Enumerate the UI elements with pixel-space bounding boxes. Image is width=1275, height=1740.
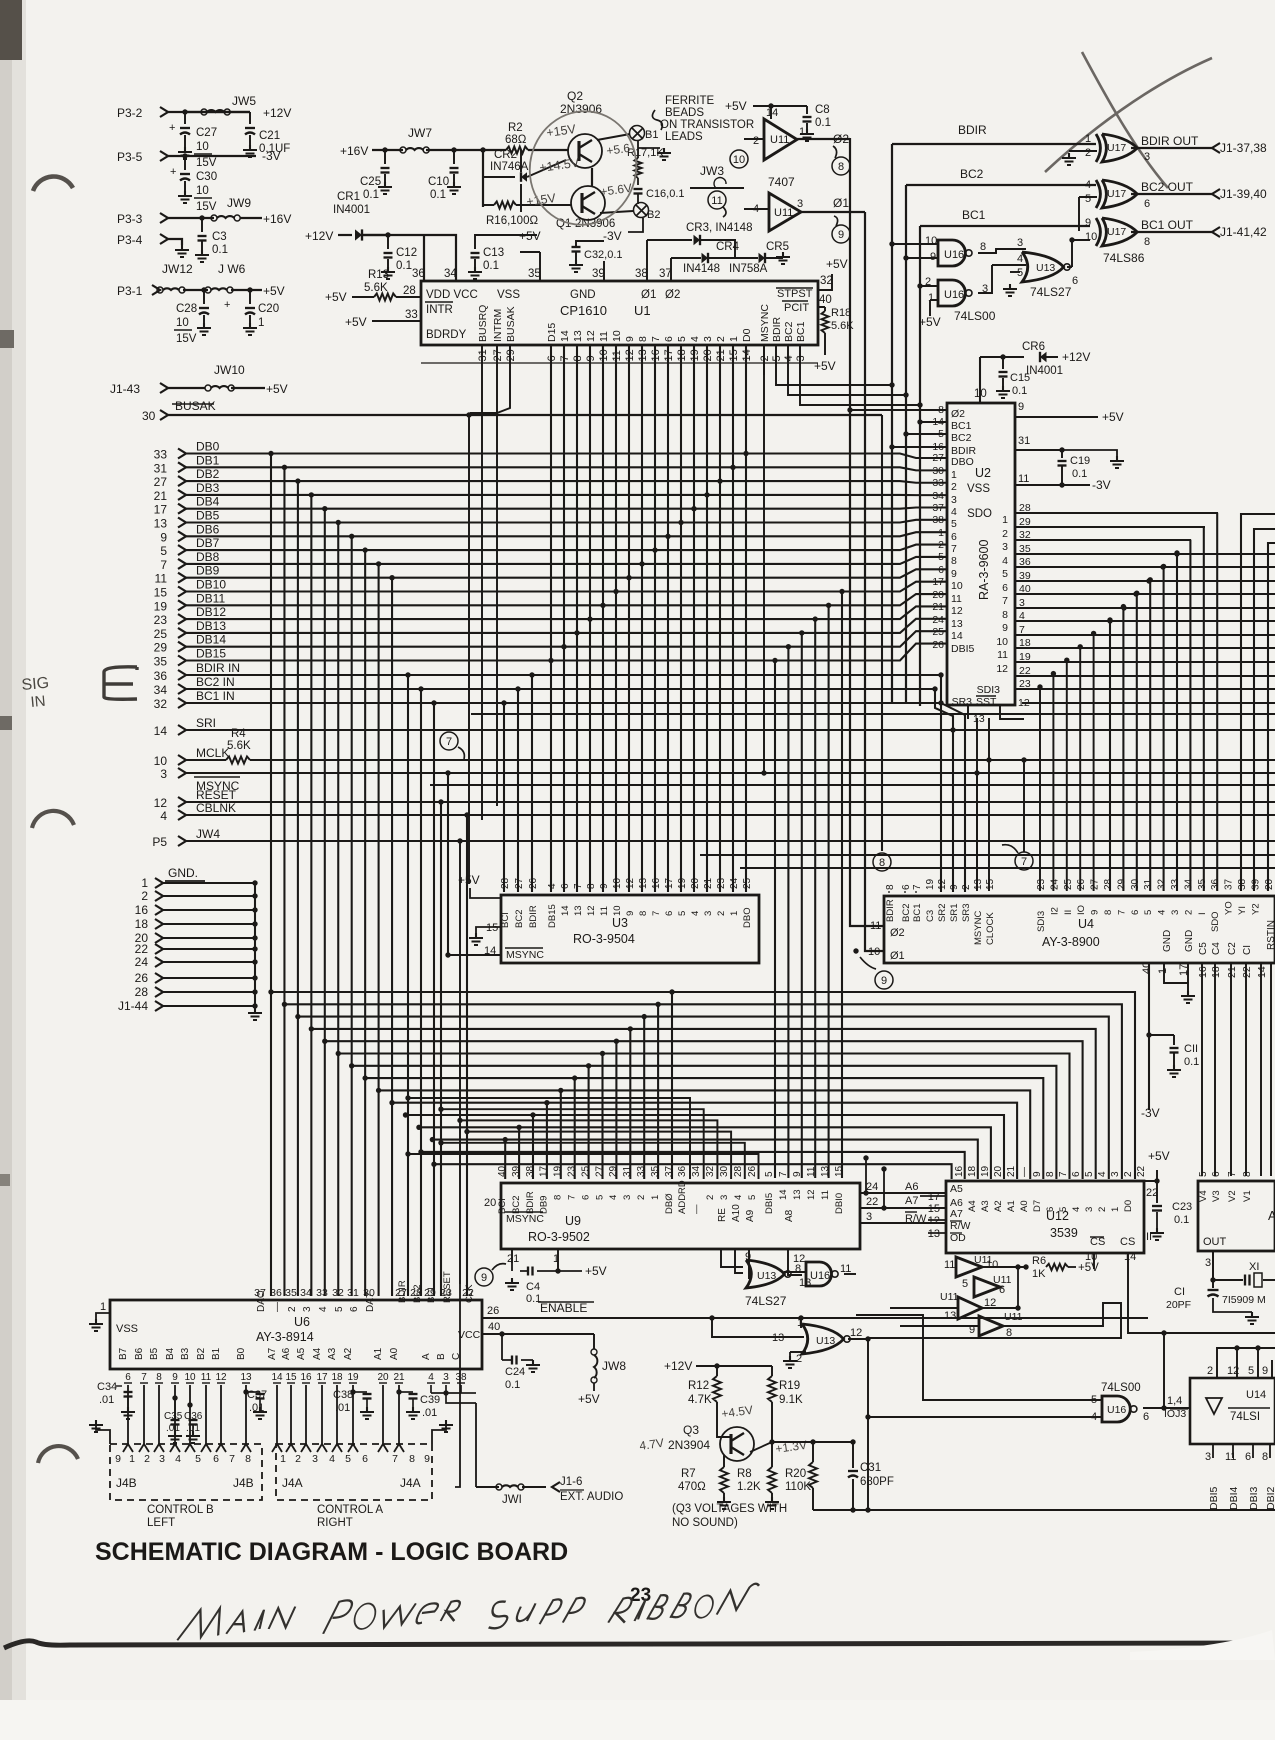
junction staircase2 col5 [574, 630, 579, 635]
svg-text:35: 35 [154, 655, 168, 669]
svg-text:35: 35 [285, 1287, 297, 1299]
wire U6 ABC pins stub [431, 1385, 461, 1393]
wire U9-U12 A6 A7 RW links [865, 1158, 867, 1193]
wire U2 row 12 [1015, 675, 1275, 677]
svg-text:10: 10 [176, 317, 189, 329]
capacitor C15 [1002, 357, 1004, 369]
svg-text:SIG: SIG [21, 675, 50, 694]
svg-text:3: 3 [1144, 151, 1150, 163]
svg-text:10: 10 [611, 330, 623, 342]
svg-text:XI: XI [1249, 1261, 1259, 1273]
svg-text:6: 6 [1071, 1171, 1082, 1177]
svg-text:6: 6 [560, 883, 571, 889]
svg-text:B6: B6 [134, 1347, 145, 1360]
svg-text:6: 6 [580, 1195, 591, 1200]
wire U4 right column 1 [1254, 529, 1275, 891]
svg-text:JW7: JW7 [408, 126, 432, 140]
wires U6 to J4B [127, 1385, 129, 1444]
svg-text:IN746A: IN746A [490, 161, 529, 173]
wire RESET drop [438, 799, 443, 804]
pin J4A 2 [286, 1444, 296, 1452]
svg-text:U3: U3 [612, 916, 628, 930]
svg-text:13: 13 [573, 905, 584, 916]
wire mid row 11 [419, 1127, 991, 1179]
svg-text:A2: A2 [993, 1200, 1004, 1212]
wire U4 col riser 3 [1079, 647, 1081, 891]
circled 9 top [832, 225, 850, 243]
nor gate U13b [746, 1260, 784, 1288]
wire Q2 emitter [597, 134, 630, 140]
svg-text:29: 29 [608, 1165, 619, 1177]
svg-text:28: 28 [500, 877, 511, 889]
svg-text:25: 25 [1063, 878, 1074, 890]
junction staircase2 col18 [743, 451, 748, 456]
pin J4B 2 [139, 1444, 149, 1452]
svg-text:BEADS: BEADS [665, 107, 704, 119]
svg-text:5: 5 [677, 911, 688, 916]
svg-text:6: 6 [1045, 1207, 1056, 1212]
svg-text:R6: R6 [1032, 1255, 1046, 1267]
svg-text:12: 12 [928, 1215, 940, 1227]
svg-text:13: 13 [951, 618, 963, 630]
svg-text:R16,100Ω: R16,100Ω [486, 215, 538, 227]
svg-text:23: 23 [154, 613, 168, 627]
svg-text:12: 12 [1018, 697, 1030, 709]
svg-text:C31: C31 [860, 1462, 881, 1474]
pin J4A 3 [301, 1444, 311, 1452]
svg-text:BC1: BC1 [795, 321, 807, 342]
svg-text:U17: U17 [1107, 226, 1126, 238]
wire U12 CS14 run [1128, 1283, 1275, 1333]
svg-text:9: 9 [951, 568, 957, 580]
svg-text:37: 37 [659, 268, 672, 280]
buffer U11e [958, 1297, 982, 1319]
svg-text:9: 9 [424, 1453, 430, 1465]
svg-text:D0: D0 [1123, 1200, 1134, 1212]
svg-text:SST: SST [976, 696, 997, 708]
wire BC2 OUT [1131, 193, 1212, 195]
pin J4B 3 [154, 1444, 164, 1452]
svg-text:6: 6 [999, 1284, 1005, 1296]
svg-text:0.1: 0.1 [526, 1293, 541, 1305]
svg-text:CR1: CR1 [337, 191, 360, 203]
svg-text:0.1: 0.1 [1012, 385, 1027, 397]
svg-text:31: 31 [1018, 435, 1030, 447]
junction staircase2 col10 [639, 561, 644, 566]
svg-text:31: 31 [477, 349, 489, 361]
svg-text:5: 5 [334, 1306, 345, 1312]
svg-text:0.1: 0.1 [1174, 1214, 1189, 1226]
wire U4 column 26 [1149, 580, 1151, 891]
wire U4 right column 2 [1268, 543, 1275, 891]
svg-text:+16V: +16V [263, 212, 291, 226]
wire JW4 drop [457, 838, 462, 843]
svg-text:B1: B1 [211, 1347, 222, 1360]
wire phase-1 output [801, 211, 865, 213]
svg-text:C30: C30 [196, 171, 217, 183]
svg-text:JW3: JW3 [700, 164, 724, 178]
svg-text:2: 2 [796, 1353, 802, 1365]
wire addr row 2 [460, 1120, 717, 1179]
wire U1 column 9 [628, 344, 630, 892]
wire Q3 output [749, 1454, 750, 1456]
svg-text:7: 7 [650, 336, 662, 342]
wire U4 col riser 0 [1039, 687, 1041, 891]
svg-text:4: 4 [1157, 910, 1168, 915]
svg-text:11: 11 [598, 331, 610, 342]
svg-text:U14: U14 [1246, 1389, 1266, 1401]
svg-text:D15: D15 [546, 323, 558, 342]
svg-text:5: 5 [160, 544, 167, 558]
svg-text:6: 6 [1002, 582, 1008, 594]
svg-text:7: 7 [1227, 1171, 1238, 1177]
wire JW4 run [186, 840, 1275, 842]
svg-text:16: 16 [300, 1372, 312, 1383]
svg-text:U11: U11 [774, 207, 793, 219]
svg-text:10: 10 [925, 235, 937, 247]
connector J4B [110, 1444, 262, 1500]
svg-text:2: 2 [951, 481, 957, 493]
svg-text:C23: C23 [1172, 1201, 1192, 1213]
svg-text:28: 28 [403, 285, 416, 297]
svg-text:1: 1 [797, 1317, 803, 1329]
svg-text:A7: A7 [905, 1195, 918, 1207]
svg-text:23: 23 [630, 1585, 651, 1606]
svg-text:9: 9 [115, 1453, 121, 1465]
wire U13a out up to U17c [1067, 266, 1072, 268]
svg-text:R/W: R/W [905, 1213, 927, 1225]
wire mid row 1 [284, 1004, 1121, 1179]
wire SR pins from BDIR/BC2/BC1 IN [940, 675, 942, 892]
svg-text:.01: .01 [99, 1394, 114, 1406]
svg-text:DB1: DB1 [196, 453, 220, 467]
svg-text:40: 40 [1141, 962, 1153, 974]
svg-text:7: 7 [912, 884, 923, 890]
pin J4B 6 [201, 1444, 211, 1452]
wire addr row 0 [408, 1098, 690, 1179]
IC U14 74LS [1190, 1378, 1275, 1444]
svg-text:3: 3 [951, 494, 957, 506]
svg-text:8: 8 [409, 1453, 415, 1465]
svg-text:2: 2 [753, 135, 759, 147]
svg-text:+5V: +5V [585, 1264, 607, 1278]
svg-text:6: 6 [938, 564, 944, 576]
svg-text:AY-3-8900: AY-3-8900 [1042, 935, 1100, 949]
svg-text:74LS00: 74LS00 [954, 309, 996, 323]
pin J4B 7 [216, 1444, 226, 1452]
svg-text:A9: A9 [745, 1209, 756, 1222]
svg-text:14: 14 [559, 330, 571, 342]
svg-text:J4B: J4B [233, 1476, 254, 1490]
svg-text:DB9: DB9 [196, 564, 220, 578]
svg-text:35: 35 [650, 1165, 661, 1177]
svg-text:10: 10 [184, 1372, 196, 1383]
wire U2 row 11 [1015, 661, 1275, 663]
svg-text:20: 20 [690, 877, 701, 889]
svg-text:8: 8 [879, 857, 885, 869]
svg-text:JW5: JW5 [232, 94, 256, 108]
wire U16b out [978, 265, 992, 293]
wire U4 column 31 [1216, 513, 1218, 891]
svg-text:2: 2 [1183, 910, 1194, 915]
IC U3 RO-3-9504 [501, 895, 759, 963]
svg-text:B5: B5 [149, 1347, 160, 1360]
wire DB5 drop to U6 [336, 520, 341, 525]
wire BDIR vertical [891, 144, 893, 704]
svg-text:A7: A7 [267, 1347, 278, 1360]
svg-text:A7: A7 [950, 1208, 963, 1220]
svg-text:19: 19 [925, 878, 936, 890]
svg-text:20: 20 [377, 1372, 389, 1383]
svg-text:6: 6 [1144, 198, 1150, 210]
junction staircase2 col3 [548, 658, 553, 663]
svg-text:MCLK: MCLK [196, 746, 229, 760]
svg-text:0.1: 0.1 [430, 189, 446, 201]
svg-text:Ø2: Ø2 [951, 408, 965, 420]
wire U4 column 28 [1176, 553, 1178, 891]
svg-text:4: 4 [1085, 179, 1091, 191]
svg-text:DB13: DB13 [196, 619, 226, 633]
svg-text:6: 6 [349, 1306, 360, 1312]
wire mid row 12 [432, 1140, 977, 1179]
svg-text:DB15: DB15 [196, 647, 226, 661]
svg-text:24: 24 [932, 614, 944, 626]
wire GND pin39 [603, 261, 605, 281]
svg-text:34: 34 [300, 1287, 312, 1299]
svg-text:20: 20 [932, 589, 944, 601]
svg-text:P5: P5 [152, 835, 167, 849]
IC U4 AY-3-8900 [884, 896, 1275, 963]
svg-text:U11: U11 [770, 134, 789, 146]
svg-text:13: 13 [928, 1228, 940, 1240]
capacitor C13 [471, 252, 480, 254]
svg-text:11: 11 [711, 195, 722, 207]
svg-text:P3-4: P3-4 [117, 233, 143, 247]
svg-text:R12: R12 [688, 1380, 709, 1392]
handwritten X mark [1045, 58, 1212, 172]
wire SRI run [186, 729, 1275, 731]
pin J4B 8 [241, 1444, 251, 1452]
svg-text:8: 8 [1242, 1171, 1253, 1177]
svg-text:D7: D7 [1032, 1200, 1043, 1212]
buffer U11f [979, 1316, 1003, 1336]
svg-text:3: 3 [702, 336, 714, 342]
svg-text:36: 36 [270, 1287, 282, 1299]
wire U1 column 10 [641, 344, 643, 892]
svg-text:DBI0: DBI0 [834, 1193, 845, 1214]
svg-text:27: 27 [514, 877, 525, 889]
svg-text:12: 12 [951, 605, 963, 617]
svg-text:BCI: BCI [500, 912, 511, 928]
xor gate U17b [1102, 180, 1137, 208]
wire U16a out to U13 [978, 250, 996, 253]
svg-text:22: 22 [135, 942, 149, 956]
IC U12 3539 [946, 1181, 1144, 1253]
svg-text:U16: U16 [944, 249, 964, 261]
svg-text:CS: CS [1120, 1236, 1135, 1248]
svg-text:3: 3 [703, 911, 714, 916]
svg-text:8: 8 [951, 555, 957, 567]
svg-text:5: 5 [345, 1453, 351, 1465]
svg-text:10: 10 [154, 754, 168, 768]
svg-text:II: II [1063, 910, 1074, 915]
svg-text:33: 33 [1170, 878, 1181, 890]
svg-text:20: 20 [484, 1197, 496, 1209]
svg-text:5: 5 [938, 551, 944, 563]
svg-text:7: 7 [951, 543, 957, 555]
svg-text:R18: R18 [831, 307, 851, 319]
svg-text:2: 2 [716, 911, 727, 916]
wire BUSAK [168, 414, 882, 416]
svg-text:3: 3 [1110, 1171, 1121, 1177]
wire U1 column 16 [719, 344, 721, 892]
svg-text:+5V: +5V [263, 284, 285, 298]
svg-text:34: 34 [1183, 878, 1194, 890]
svg-text:21: 21 [154, 489, 168, 503]
svg-text:37: 37 [932, 502, 944, 514]
svg-text:10: 10 [951, 580, 963, 592]
svg-text:4: 4 [689, 336, 701, 342]
svg-text:5: 5 [1085, 193, 1091, 205]
wire BC1 OUT [1131, 231, 1212, 233]
circled 9 low [860, 957, 876, 969]
svg-text:3: 3 [1084, 1207, 1095, 1212]
svg-text:DBI3: DBI3 [1248, 1486, 1260, 1510]
wire DB0 drop to U6 [268, 451, 273, 456]
wire U2 row 6 [1015, 593, 1275, 595]
wire U2 row 5 [1015, 580, 1275, 582]
svg-text:2: 2 [295, 1453, 301, 1465]
svg-text:26: 26 [487, 1305, 499, 1317]
svg-text:0.1: 0.1 [1072, 468, 1087, 480]
svg-text:A4: A4 [967, 1200, 978, 1212]
svg-text:Ø2: Ø2 [665, 289, 680, 301]
svg-text:C36: C36 [184, 1411, 203, 1422]
svg-text:13: 13 [799, 1277, 811, 1289]
svg-text:10: 10 [868, 946, 880, 958]
wire phase-2 output [797, 138, 850, 140]
svg-text:C24: C24 [505, 1366, 525, 1378]
svg-text:CR2: CR2 [494, 149, 517, 161]
svg-text:A4: A4 [312, 1347, 323, 1360]
svg-text:9: 9 [792, 1171, 803, 1177]
svg-text:INTR: INTR [426, 304, 453, 316]
wire U1 column 14 [693, 344, 695, 892]
svg-text:CONTROL A: CONTROL A [317, 1504, 383, 1516]
wire DB10 drop to U9 [839, 589, 844, 594]
wire DB14 drop to U9 [786, 644, 791, 649]
svg-text:BC1: BC1 [962, 208, 986, 222]
svg-text:0.1: 0.1 [483, 260, 499, 272]
svg-text:SDO: SDO [1210, 911, 1221, 932]
svg-text:2: 2 [287, 1306, 298, 1312]
jumper JW1 [475, 1403, 477, 1487]
wire RE/A10/A9 to U13b [721, 1249, 743, 1267]
wire BC1 IN drop [431, 700, 436, 705]
svg-text:C34: C34 [97, 1381, 117, 1393]
jumper JW8 [591, 1349, 597, 1355]
svg-text:DBI5: DBI5 [951, 643, 975, 655]
svg-text:12: 12 [585, 330, 597, 342]
svg-text:OUT: OUT [1203, 1236, 1227, 1248]
wires U6 to J4A [276, 1385, 278, 1444]
svg-text:DB11: DB11 [196, 591, 225, 605]
wire U14 top net [1217, 1348, 1275, 1378]
svg-text:BC1 IN: BC1 IN [196, 689, 235, 703]
capacitor C21 [249, 112, 251, 124]
svg-text:1: 1 [1002, 514, 1008, 526]
svg-text:4: 4 [175, 1453, 181, 1465]
svg-text:8: 8 [637, 336, 649, 342]
svg-text:3: 3 [622, 1195, 633, 1200]
wire RESET run [186, 801, 1275, 803]
wire band row 0 [471, 713, 1275, 715]
svg-text:SDI3: SDI3 [977, 684, 1001, 696]
wire U2 row 7 [1015, 607, 1275, 609]
svg-text:C16,0.1: C16,0.1 [646, 188, 685, 200]
wire U4 column 27 [1163, 566, 1165, 891]
svg-text:Ø1: Ø1 [833, 196, 849, 210]
wire Q1 emitter [600, 211, 633, 213]
wire U16d input 4 [868, 1416, 1102, 1418]
svg-text:9: 9 [599, 883, 610, 889]
svg-text:14: 14 [951, 630, 963, 642]
svg-text:J1-43: J1-43 [110, 382, 140, 396]
svg-text:C20: C20 [258, 303, 279, 315]
wire mid row 8 [379, 1090, 1031, 1179]
wire transistor bases [567, 149, 569, 151]
svg-text:9: 9 [172, 1372, 178, 1383]
svg-text:5: 5 [962, 1278, 968, 1290]
svg-text:+5V: +5V [325, 290, 347, 304]
capacitor C25 [384, 150, 386, 164]
svg-text:B1: B1 [645, 129, 658, 141]
svg-text:14: 14 [154, 724, 168, 738]
svg-text:CR5: CR5 [766, 241, 789, 253]
svg-text:21: 21 [1006, 1165, 1017, 1177]
wire U2 row 10 [1015, 647, 1275, 649]
svg-text:17: 17 [932, 576, 944, 588]
wire mid row 14 [434, 1164, 952, 1179]
pin J4B 1 [123, 1444, 133, 1452]
wire addr row 4 [441, 1143, 745, 1179]
svg-text:30: 30 [142, 409, 156, 423]
svg-text:1: 1 [928, 292, 934, 304]
svg-text:Ø1: Ø1 [641, 289, 656, 301]
pin J4A 4 [317, 1444, 327, 1452]
svg-text:U16: U16 [944, 289, 964, 301]
svg-text:4: 4 [951, 506, 957, 518]
svg-text:GND: GND [1162, 930, 1173, 952]
wire DB9 drop to U6 [389, 575, 394, 580]
svg-text:VDD VCC: VDD VCC [426, 289, 478, 301]
svg-text:19: 19 [347, 1372, 359, 1383]
svg-text:SR1: SR1 [949, 904, 960, 922]
wire mid row 13 [421, 1152, 965, 1179]
svg-text:RSTIN: RSTIN [1266, 920, 1275, 950]
svg-text:10: 10 [612, 877, 623, 889]
svg-text:6: 6 [663, 336, 675, 342]
svg-text:Ø2: Ø2 [833, 132, 849, 146]
capacitor C11 [1149, 1034, 1174, 1036]
svg-text:1: 1 [729, 911, 740, 916]
wire U1 column 15 [706, 344, 708, 892]
svg-text:5: 5 [1198, 1171, 1209, 1177]
svg-text:BC2: BC2 [901, 904, 912, 922]
svg-text:C15: C15 [1010, 372, 1030, 384]
svg-text:BC2: BC2 [951, 432, 972, 444]
svg-text:15V: 15V [196, 157, 217, 169]
